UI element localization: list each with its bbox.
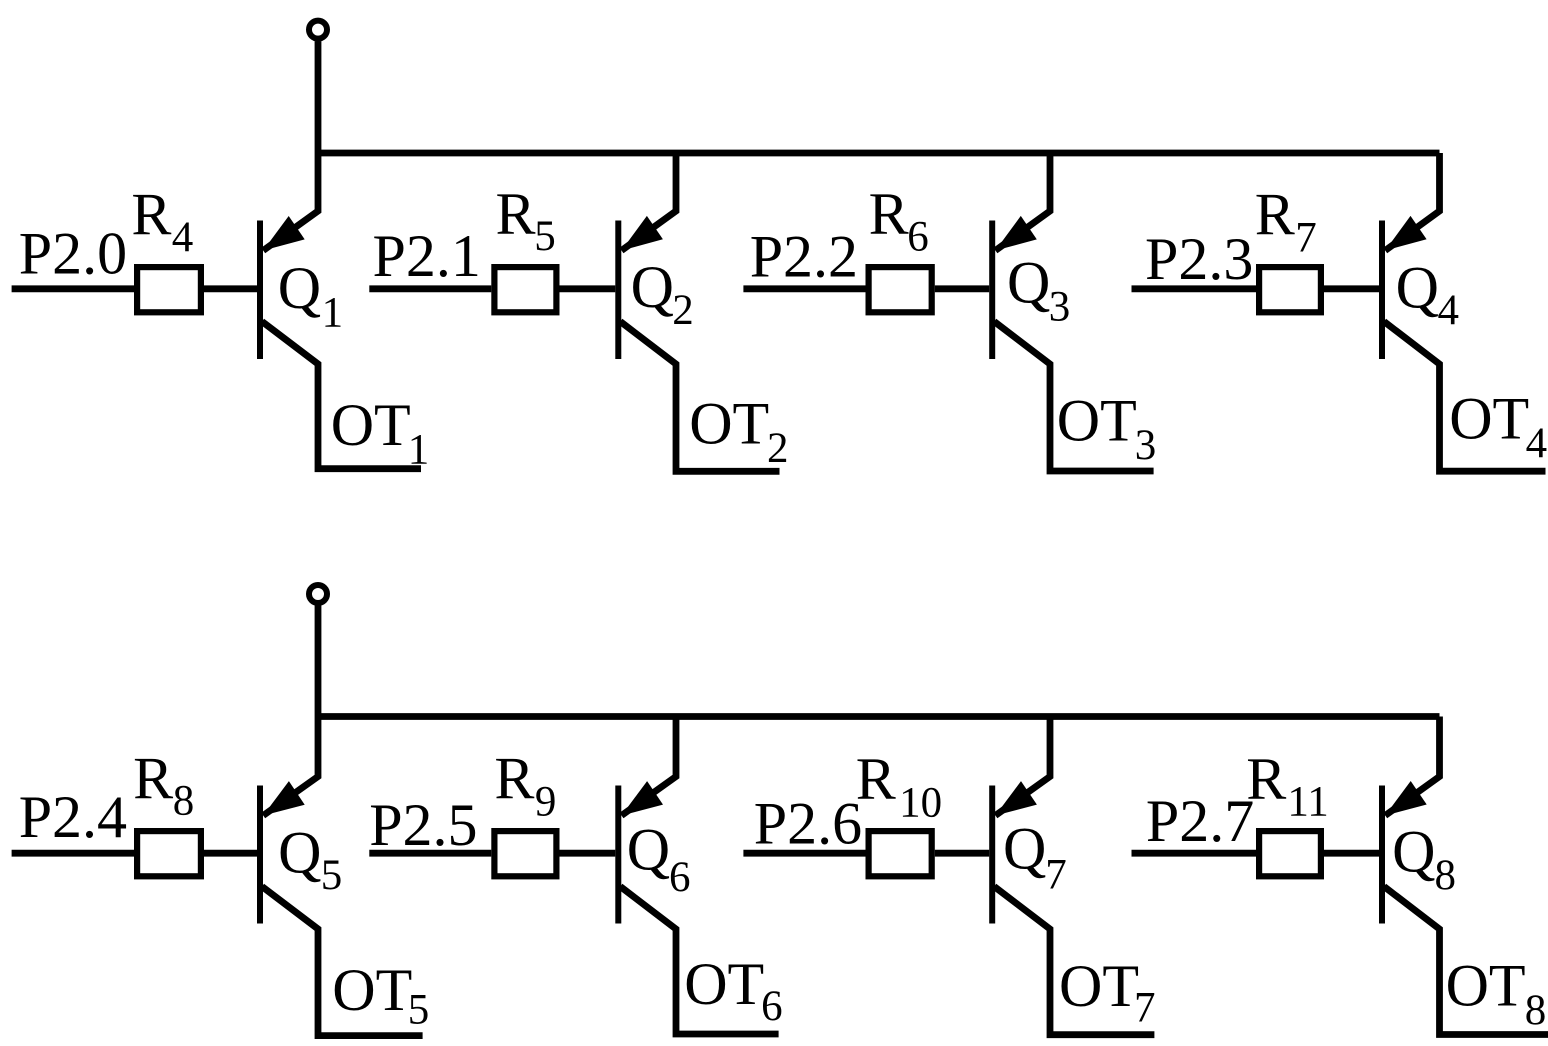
svg-text:OT: OT (1057, 388, 1137, 454)
svg-text:Q: Q (1392, 819, 1435, 885)
svg-text:6: 6 (907, 213, 929, 260)
svg-text:R: R (494, 745, 534, 811)
svg-text:OT: OT (331, 392, 411, 458)
svg-text:R: R (869, 181, 909, 247)
svg-text:6: 6 (761, 983, 783, 1030)
svg-text:Q: Q (278, 255, 321, 321)
svg-text:10: 10 (899, 779, 942, 826)
svg-text:OT: OT (689, 391, 769, 457)
svg-text:1: 1 (322, 289, 344, 336)
svg-text:Q: Q (627, 817, 670, 883)
svg-text:7: 7 (1045, 852, 1067, 899)
svg-text:11: 11 (1287, 779, 1328, 826)
svg-text:3: 3 (1135, 422, 1157, 469)
svg-text:Q: Q (1396, 255, 1439, 321)
svg-text:5: 5 (408, 987, 430, 1034)
svg-text:3: 3 (1049, 284, 1071, 331)
svg-text:7: 7 (1134, 985, 1156, 1032)
svg-text:R: R (1255, 182, 1295, 248)
svg-text:R: R (1246, 746, 1286, 812)
svg-text:1: 1 (408, 427, 430, 474)
svg-text:P2.0: P2.0 (19, 221, 127, 287)
svg-text:4: 4 (1526, 420, 1548, 467)
svg-text:R: R (856, 746, 896, 812)
svg-text:Q: Q (278, 819, 321, 885)
svg-text:Q: Q (1007, 250, 1050, 316)
svg-text:2: 2 (672, 287, 694, 334)
svg-text:OT: OT (684, 951, 764, 1017)
svg-text:8: 8 (1435, 852, 1457, 899)
svg-text:OT: OT (1449, 386, 1529, 452)
svg-text:P2.2: P2.2 (750, 224, 858, 290)
svg-text:R: R (131, 182, 171, 248)
svg-text:7: 7 (1295, 214, 1317, 261)
svg-text:OT: OT (1446, 952, 1526, 1018)
svg-text:Q: Q (631, 254, 674, 320)
svg-text:P2.4: P2.4 (19, 784, 127, 850)
svg-text:OT: OT (1059, 953, 1139, 1019)
svg-text:P2.1: P2.1 (373, 223, 481, 289)
svg-text:6: 6 (669, 854, 691, 901)
svg-text:4: 4 (172, 214, 194, 261)
svg-text:R: R (496, 181, 536, 247)
svg-text:P2.3: P2.3 (1145, 226, 1253, 292)
svg-text:8: 8 (173, 778, 195, 825)
svg-text:P2.6: P2.6 (754, 791, 862, 857)
svg-text:8: 8 (1525, 987, 1547, 1034)
svg-text:5: 5 (534, 213, 556, 260)
svg-text:OT: OT (332, 957, 412, 1023)
svg-text:P2.5: P2.5 (369, 792, 477, 858)
svg-text:Q: Q (1003, 815, 1046, 881)
svg-text:R: R (133, 745, 173, 811)
svg-text:5: 5 (321, 852, 343, 899)
svg-text:4: 4 (1438, 287, 1460, 334)
svg-text:P2.7: P2.7 (1146, 788, 1254, 854)
svg-text:9: 9 (535, 779, 557, 826)
svg-text:2: 2 (767, 425, 789, 472)
